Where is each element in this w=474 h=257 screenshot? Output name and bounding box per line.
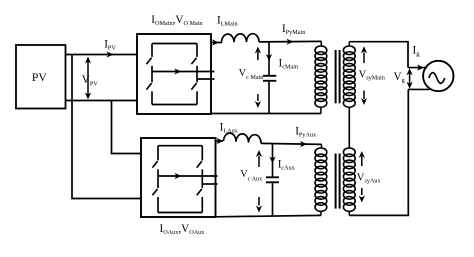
svg-text:PV: PV — [32, 71, 47, 84]
